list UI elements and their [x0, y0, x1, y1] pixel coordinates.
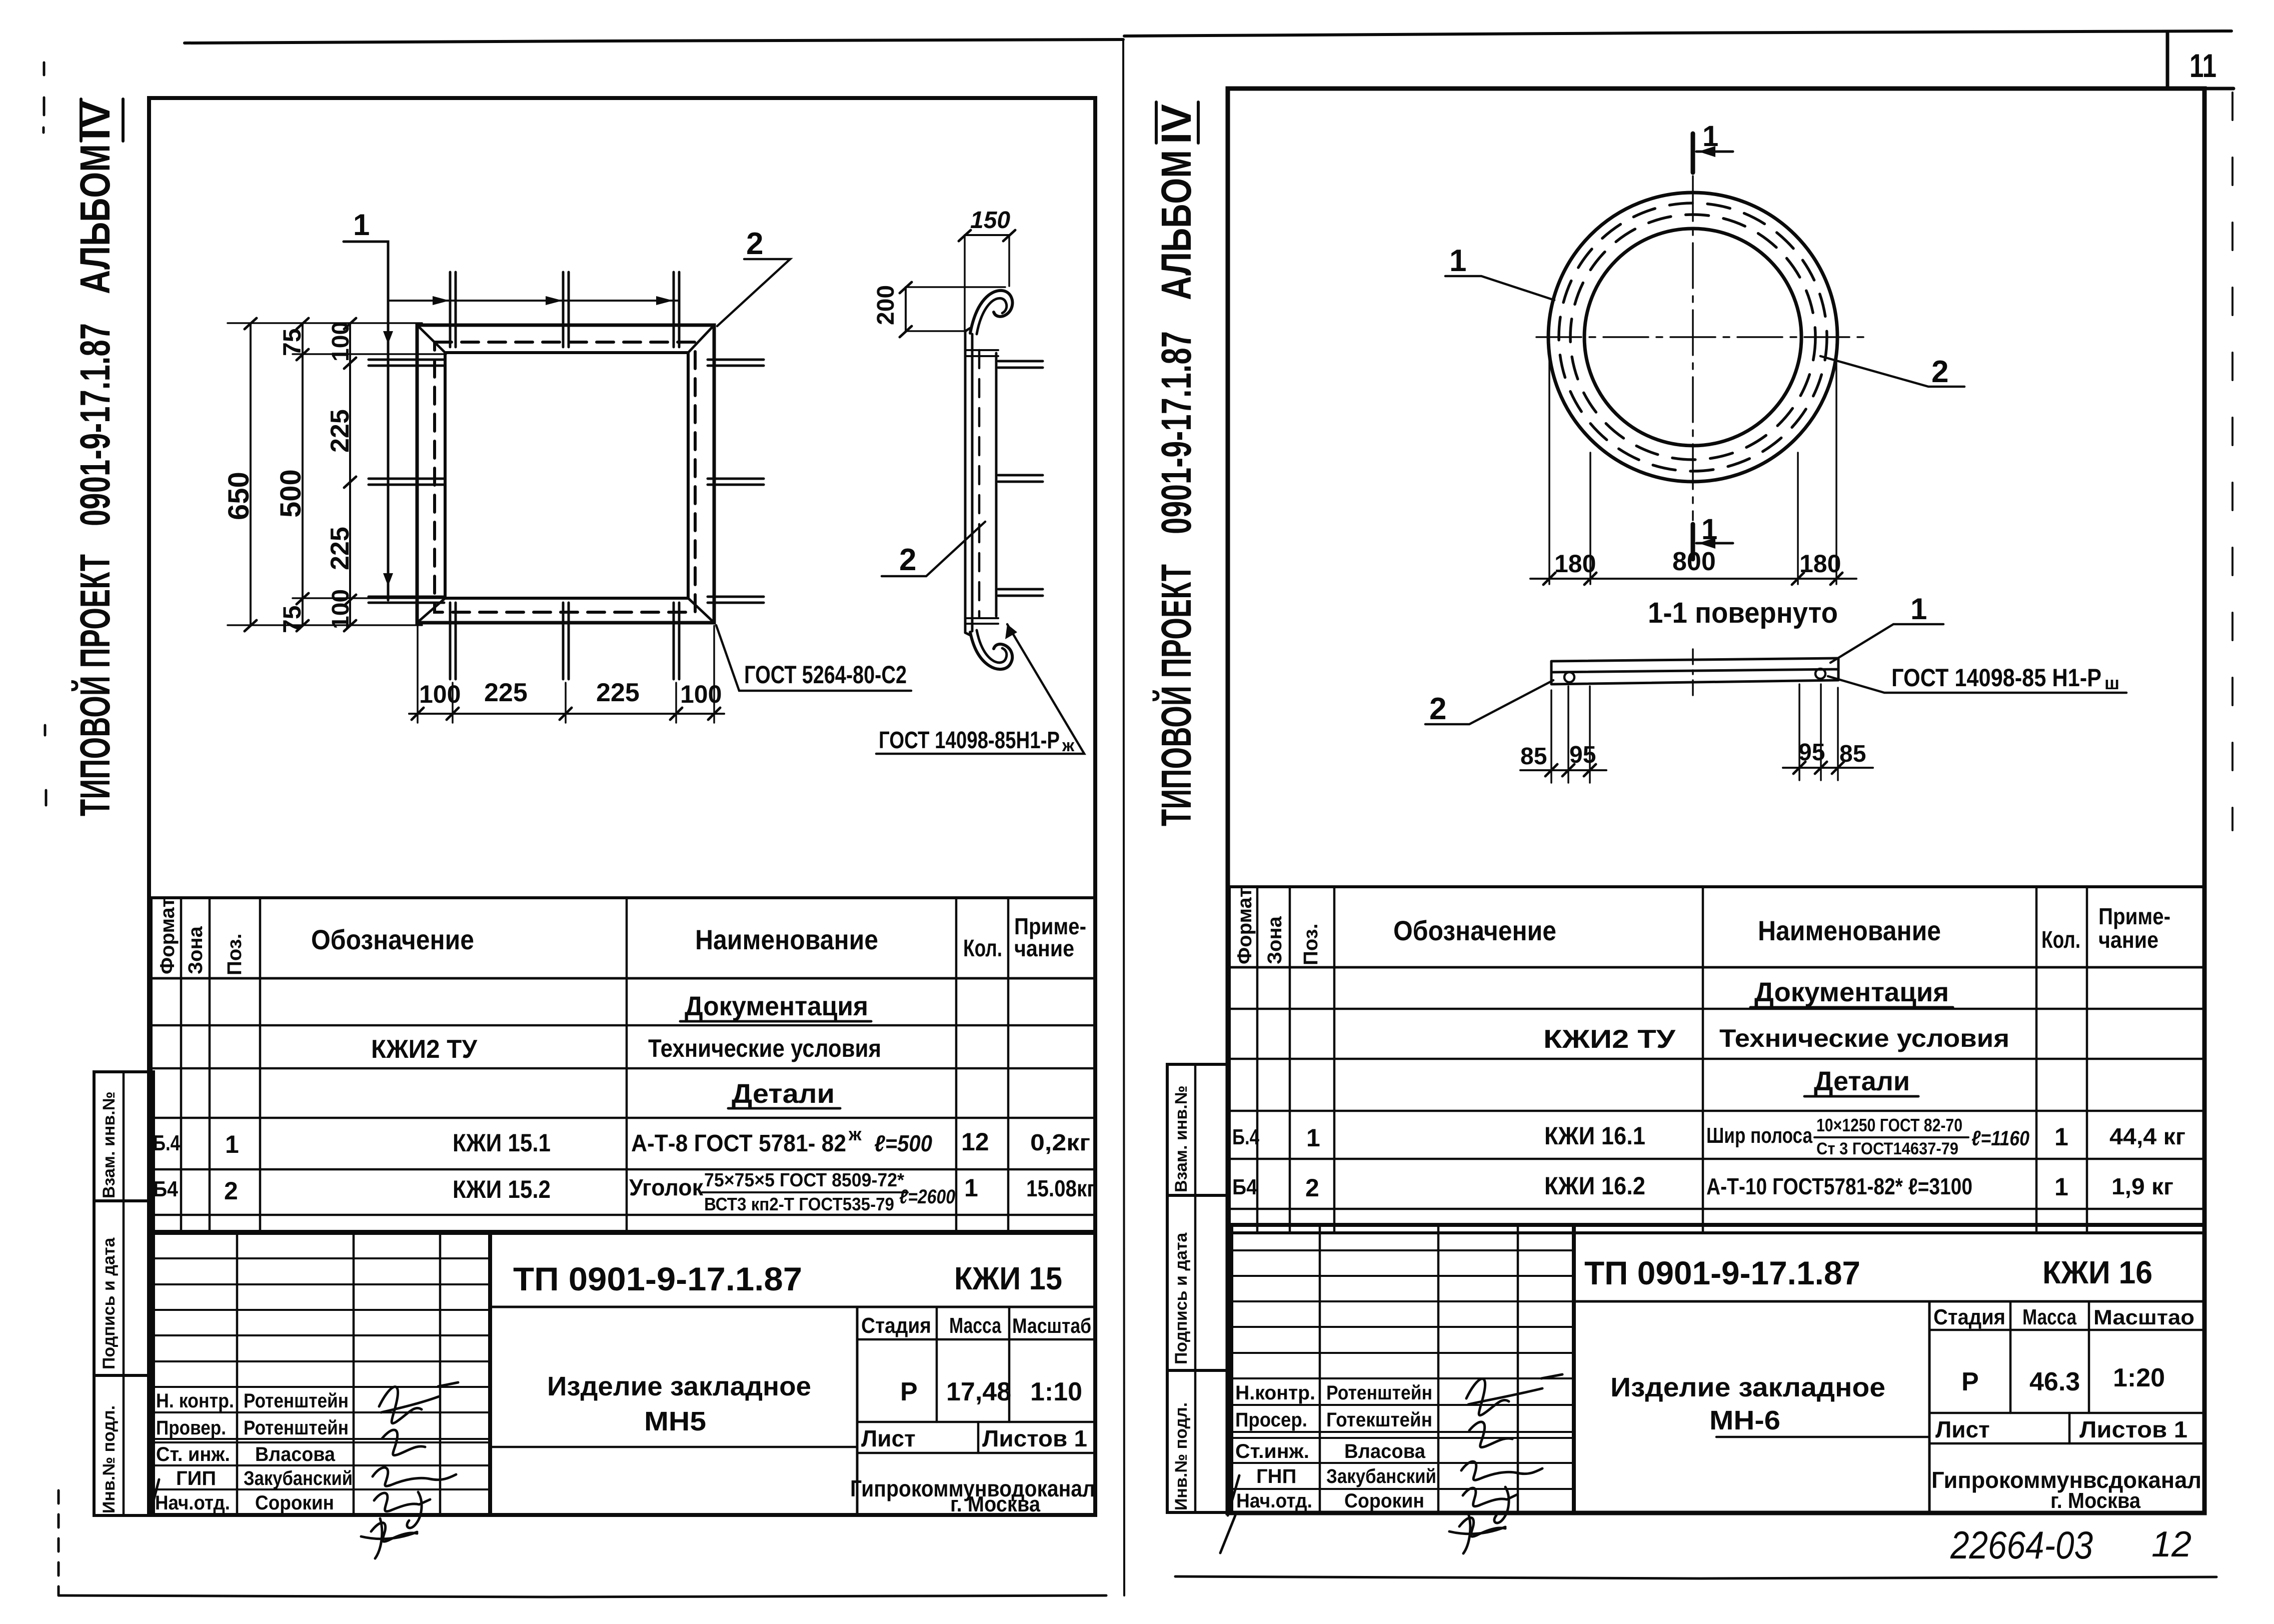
svg-text:ГНП: ГНП [1256, 1465, 1296, 1487]
svg-text:180: 180 [1799, 550, 1841, 578]
svg-text:ГИП: ГИП [176, 1467, 216, 1489]
svg-text:800: 800 [1672, 547, 1716, 576]
svg-text:1,9 кг: 1,9 кг [2111, 1173, 2173, 1199]
svg-text:А-Т-10 ГОСТ5781-82* ℓ=3100: А-Т-10 ГОСТ5781-82* ℓ=3100 [1706, 1173, 1972, 1199]
bottom dimension chain 100 225 225 100 [409, 713, 724, 715]
svg-text:Кол.: Кол. [963, 935, 1002, 962]
svg-text:Взам. инв.№: Взам. инв.№ [100, 1091, 119, 1198]
dim extension lines left side [228, 323, 446, 625]
right title block left-part column lines [1320, 1225, 1518, 1513]
svg-text:Сорокин: Сорокин [1344, 1490, 1424, 1512]
svg-text:Технические условия: Технические условия [1719, 1024, 2009, 1052]
svg-text:Б.4: Б.4 [1232, 1125, 1259, 1149]
svg-text:85: 85 [1839, 741, 1866, 767]
svg-text:Формат: Формат [157, 898, 179, 974]
plan view: inner square of angle frame [445, 353, 688, 598]
svg-text:Подпись и дата: Подпись и дата [100, 1237, 119, 1369]
svg-text:Провер.: Провер. [156, 1417, 226, 1439]
left sheet bottom scan line [59, 1595, 1106, 1597]
right sheet page frame [1228, 89, 2204, 1513]
svg-text:Лист: Лист [861, 1425, 916, 1451]
svg-text:225: 225 [596, 678, 640, 707]
section mark 1 top [1691, 134, 1695, 173]
side view: angle plate (item 2) [965, 331, 972, 633]
svg-text:10×1250 ГОСТ 82-70: 10×1250 ГОСТ 82-70 [1816, 1115, 1962, 1135]
svg-text:Масса: Масса [2022, 1305, 2076, 1329]
svg-text:1: 1 [353, 208, 370, 242]
side view: dim 200 [905, 287, 907, 331]
right title block left-part row lines [1231, 1250, 1574, 1489]
svg-text:1: 1 [2054, 1123, 2068, 1151]
svg-text:ТИПОВОЙ ПРОЕКТ: ТИПОВОЙ ПРОЕКТ [1153, 564, 1200, 826]
ring plan: inner circle [1584, 229, 1801, 446]
svg-text:2: 2 [224, 1177, 238, 1205]
svg-text:Ротенштейн: Ротенштейн [244, 1390, 349, 1412]
svg-text:МН-6: МН-6 [1709, 1405, 1780, 1435]
svg-text:КЖИ 15.2: КЖИ 15.2 [453, 1175, 551, 1203]
right sheet top edge line [1124, 31, 2231, 36]
svg-text:ж: ж [848, 1124, 862, 1144]
svg-text:ℓ=500: ℓ=500 [874, 1130, 932, 1156]
svg-text:Стадия: Стадия [1933, 1305, 2005, 1329]
svg-text:АЛЬБОМ: АЛЬБОМ [1153, 150, 1200, 300]
svg-text:Стадия: Стадия [861, 1313, 931, 1338]
svg-text:2: 2 [1429, 692, 1446, 726]
svg-text:ш: ш [2104, 673, 2119, 693]
svg-text:Сорокин: Сорокин [255, 1492, 334, 1514]
right spec table row lines [1229, 966, 2204, 969]
svg-text:ГОСТ 5264-80-С2: ГОСТ 5264-80-С2 [744, 661, 907, 689]
svg-text:Обозначение: Обозначение [1393, 915, 1556, 946]
svg-text:Закубанский: Закубанский [1326, 1465, 1436, 1487]
plan view: hidden dashed square (angle leg) [435, 342, 695, 612]
svg-text:12: 12 [961, 1128, 989, 1156]
ring plan: outer circle (item 1) [1548, 193, 1837, 482]
right side box Взам.инв.№ [1167, 1064, 1228, 1195]
svg-text:Инв.№ подл.: Инв.№ подл. [1172, 1402, 1191, 1510]
svg-text:225: 225 [326, 527, 355, 570]
left sheet top edge line [185, 40, 1123, 43]
left title block centre divider line [490, 1446, 857, 1448]
svg-text:Лист: Лист [1935, 1416, 1990, 1442]
svg-text:Просер.: Просер. [1235, 1409, 1307, 1431]
sheet divider line [1123, 40, 1124, 1595]
left side box Подпись и дата [94, 1201, 154, 1375]
svg-text:1: 1 [1702, 120, 1718, 153]
svg-text:100: 100 [419, 680, 461, 708]
section view strip (band edge-on) [1551, 658, 1838, 684]
left title block left-part column lines [237, 1233, 440, 1515]
svg-text:Масса: Масса [949, 1313, 1001, 1338]
svg-text:Шир полоса: Шир полоса [1706, 1123, 1812, 1148]
right specification table frame [1229, 887, 2204, 1233]
ring plan: hidden dashed circles (item 2 rebar ring) [1559, 203, 1827, 471]
svg-text:0901-9-17.1.87: 0901-9-17.1.87 [1153, 331, 1200, 534]
svg-text:Б4: Б4 [153, 1177, 178, 1201]
svg-text:ГОСТ 14098-85 Н1-Р: ГОСТ 14098-85 Н1-Р [1891, 664, 2101, 692]
svg-text:Власова: Власова [255, 1443, 336, 1465]
svg-text:225: 225 [484, 678, 528, 707]
svg-text:ж: ж [1062, 736, 1075, 755]
svg-text:Власова: Власова [1344, 1440, 1426, 1462]
side view: dim 150 [965, 234, 1009, 236]
right title block centre divider line [1716, 1436, 1929, 1438]
svg-text:КЖИ 16: КЖИ 16 [2042, 1254, 2152, 1290]
right spec table column lines [1257, 887, 2087, 1233]
svg-text:ℓ=2600: ℓ=2600 [899, 1186, 955, 1208]
svg-text:Р: Р [900, 1377, 918, 1406]
side view: spike bars [998, 361, 1043, 368]
svg-text:11: 11 [2189, 47, 2216, 84]
svg-text:1: 1 [1910, 592, 1927, 626]
svg-text:Технические условия: Технические условия [648, 1034, 881, 1062]
svg-text:Формат: Формат [1234, 888, 1256, 964]
left side box Взам.инв.№ [94, 1072, 154, 1201]
svg-text:Ст 3 ГОСТ14637-79: Ст 3 ГОСТ14637-79 [1816, 1139, 1958, 1158]
svg-text:ℓ=1160: ℓ=1160 [1971, 1126, 2029, 1150]
section dim line right 95 85 [1783, 767, 1873, 769]
svg-text:КЖИ2 ТУ: КЖИ2 ТУ [371, 1035, 478, 1064]
svg-text:Наименование: Наименование [1758, 915, 1941, 946]
svg-text:Р: Р [1961, 1367, 1979, 1396]
right title block frame [1231, 1225, 2204, 1513]
svg-text:75×75×5 ГОСТ 8509-72*: 75×75×5 ГОСТ 8509-72* [704, 1170, 904, 1191]
section dim line left 85 95 [1520, 769, 1606, 771]
svg-text:Н. контр.: Н. контр. [156, 1390, 234, 1412]
svg-text:ТИПОВОЙ ПРОЕКТ: ТИПОВОЙ ПРОЕКТ [72, 554, 119, 816]
svg-text:225: 225 [326, 409, 355, 453]
svg-text:2: 2 [899, 543, 916, 577]
svg-text:КЖИ 15.1: КЖИ 15.1 [453, 1129, 551, 1157]
svg-text:1:20: 1:20 [2113, 1363, 2165, 1392]
left specification table frame [151, 898, 1095, 1231]
svg-text:200: 200 [873, 285, 899, 325]
left side box Инв.№ подл. [94, 1375, 154, 1515]
svg-text:ТП 0901-9-17.1.87: ТП 0901-9-17.1.87 [513, 1260, 802, 1297]
dim 650 vertical line [250, 323, 252, 625]
dim 500 vertical line with 75 ends [302, 323, 304, 625]
svg-text:Зона: Зона [185, 926, 207, 974]
svg-text:чание: чание [2098, 927, 2158, 953]
section view weld circles [1564, 672, 1574, 682]
left spec table row lines [151, 977, 1095, 980]
right signatures handwriting [1466, 1374, 1562, 1415]
left bottom scan dashed edge [58, 1490, 60, 1594]
section dim extension lines left [1551, 686, 1590, 783]
svg-text:95: 95 [1569, 742, 1596, 768]
top dimension line with arrows [388, 300, 678, 302]
svg-text:Зона: Зона [1264, 916, 1286, 964]
svg-text:Детали: Детали [732, 1079, 835, 1109]
plan view: corner miter lines [417, 325, 714, 623]
svg-text:75: 75 [278, 605, 306, 633]
right sheet bottom scan line [1175, 1576, 2216, 1578]
svg-text:Листов 1: Листов 1 [2079, 1416, 2187, 1442]
svg-text:46.3: 46.3 [2029, 1367, 2080, 1396]
svg-text:Закубанский: Закубанский [244, 1467, 353, 1489]
svg-text:IV: IV [72, 100, 119, 140]
svg-text:1: 1 [1306, 1124, 1320, 1152]
ring plan: vertical centreline [1692, 176, 1694, 520]
dim chain 100/225/225/100 vertical line [349, 323, 351, 625]
svg-text:Инв.№ подл.: Инв.№ подл. [100, 1405, 119, 1513]
plan view: outer square of angle frame MH5 [417, 325, 714, 623]
svg-text:17,48: 17,48 [946, 1377, 1011, 1406]
svg-text:КЖИ 16.1: КЖИ 16.1 [1544, 1122, 1645, 1150]
svg-text:Б.4: Б.4 [153, 1131, 180, 1155]
left sheet page frame [149, 98, 1095, 1515]
svg-text:1: 1 [1701, 513, 1717, 546]
svg-text:1: 1 [964, 1174, 978, 1202]
svg-text:100: 100 [328, 322, 354, 362]
svg-text:Документация: Документация [1754, 977, 1949, 1007]
svg-text:Наименование: Наименование [695, 924, 878, 955]
rebar spikes left row [369, 360, 444, 366]
left spec table column lines [181, 898, 1008, 1231]
section mark 1 bottom [1691, 524, 1695, 559]
svg-text:чание: чание [1014, 935, 1074, 961]
svg-text:Ротенштейн: Ротенштейн [1326, 1382, 1432, 1404]
svg-text:95: 95 [1798, 739, 1825, 766]
svg-text:Детали: Детали [1814, 1066, 1910, 1096]
svg-text:IV: IV [1153, 104, 1200, 144]
right side box Подпись и дата [1167, 1195, 1228, 1370]
svg-text:650: 650 [223, 472, 255, 520]
svg-text:Обозначение: Обозначение [311, 924, 474, 955]
svg-text:Изделие закладное: Изделие закладное [1610, 1372, 1885, 1402]
svg-text:2: 2 [1305, 1174, 1319, 1202]
svg-text:1: 1 [1449, 244, 1466, 278]
svg-text:г. Москва: г. Москва [950, 1492, 1040, 1516]
svg-text:Кол.: Кол. [2041, 927, 2080, 953]
svg-text:КЖИ 15: КЖИ 15 [954, 1260, 1062, 1296]
svg-text:75: 75 [278, 328, 306, 356]
svg-text:1: 1 [2054, 1173, 2068, 1201]
svg-text:150: 150 [970, 207, 1010, 234]
svg-text:Н.контр.: Н.контр. [1235, 1382, 1315, 1404]
ring plan: horizontal centreline [1536, 336, 1871, 338]
svg-text:Нач.отд.: Нач.отд. [1236, 1490, 1312, 1512]
svg-text:1:10: 1:10 [1030, 1377, 1082, 1406]
side view: weld marks near hooks [965, 350, 998, 624]
svg-text:0,2кг: 0,2кг [1030, 1129, 1090, 1155]
svg-text:Изделие закладное: Изделие закладное [547, 1371, 811, 1401]
svg-text:ТП 0901-9-17.1.87: ТП 0901-9-17.1.87 [1584, 1254, 1860, 1291]
svg-text:Взам. инв.№: Взам. инв.№ [1172, 1085, 1191, 1192]
svg-text:Масштаб: Масштаб [1012, 1314, 1091, 1337]
side view: top hook of plate [970, 291, 1012, 333]
svg-text:500: 500 [275, 469, 307, 518]
left title block left-part row lines [151, 1258, 490, 1489]
svg-text:12: 12 [2151, 1524, 2191, 1564]
ring dimension line 180 800 180 [1530, 578, 1856, 580]
section line 1 with flag [344, 242, 388, 600]
svg-text:Поз.: Поз. [224, 933, 246, 975]
section dim extension lines right [1799, 684, 1838, 780]
left title block frame [151, 1233, 1095, 1515]
left title block Стадия/Масса/Масштаб box [856, 1307, 859, 1515]
right title block upper band line [1574, 1300, 2204, 1303]
svg-text:АЛЬБОМ: АЛЬБОМ [72, 144, 119, 294]
svg-text:Ротенштейн: Ротенштейн [244, 1417, 349, 1439]
right title block Стадия/Масса/Масштаб box [1928, 1301, 1931, 1513]
left title block upper band line [490, 1306, 1095, 1308]
svg-text:15.08кг: 15.08кг [1026, 1175, 1095, 1201]
svg-text:Поз.: Поз. [1300, 923, 1322, 965]
svg-text:А-Т-8 ГОСТ 5781- 82: А-Т-8 ГОСТ 5781- 82 [631, 1130, 846, 1157]
handwritten slash near ГНП row [1220, 1475, 1239, 1553]
svg-text:85: 85 [1520, 743, 1547, 770]
section view centreline [1692, 649, 1694, 696]
left scan edge dashes [44, 63, 46, 805]
ring dimension extension lines [1549, 344, 1836, 584]
svg-text:КЖИ 16.2: КЖИ 16.2 [1544, 1172, 1645, 1200]
svg-text:0901-9-17.1.87: 0901-9-17.1.87 [72, 323, 119, 526]
page number box line [2166, 32, 2169, 89]
rebar spikes bottom row [450, 603, 456, 679]
right scan edge dashed line [2231, 93, 2233, 830]
svg-text:Готекштейн: Готекштейн [1326, 1409, 1432, 1431]
svg-text:1-1 повернуто: 1-1 повернуто [1648, 597, 1838, 629]
left signatures handwriting [379, 1382, 458, 1423]
svg-text:г. Москва: г. Москва [2050, 1488, 2140, 1513]
rebar spikes right row [708, 360, 764, 366]
svg-text:Приме-: Приме- [2098, 903, 2170, 929]
svg-text:44,4 кг: 44,4 кг [2109, 1123, 2185, 1149]
svg-text:100: 100 [328, 589, 354, 629]
svg-text:Ст.инж.: Ст.инж. [1235, 1440, 1309, 1462]
svg-text:2: 2 [1931, 355, 1948, 389]
svg-text:ГОСТ 14098-85Н1-Р: ГОСТ 14098-85Н1-Р [879, 727, 1060, 754]
rebar spikes top row (item 1) [450, 272, 456, 347]
svg-text:КЖИ2 ТУ: КЖИ2 ТУ [1543, 1025, 1676, 1054]
svg-text:Подпись и дата: Подпись и дата [1172, 1232, 1191, 1364]
svg-text:Масштао: Масштао [2093, 1305, 2194, 1329]
svg-text:Листов 1: Листов 1 [982, 1425, 1087, 1451]
svg-text:Ст. инж.: Ст. инж. [156, 1443, 230, 1465]
svg-text:Уголок: Уголок [629, 1174, 704, 1200]
svg-text:Б4: Б4 [1232, 1175, 1257, 1199]
side view: bottom hook of plate [970, 632, 1012, 669]
handwritten slash near ГИП row [150, 1479, 159, 1514]
svg-text:2: 2 [746, 227, 763, 261]
svg-text:ВСТ3 кп2-Т ГОСТ535-79: ВСТ3 кп2-Т ГОСТ535-79 [704, 1194, 894, 1214]
right side box Инв.№ подл. [1167, 1370, 1228, 1512]
svg-text:1: 1 [225, 1130, 239, 1158]
svg-text:МН5: МН5 [644, 1406, 706, 1436]
svg-text:100: 100 [680, 680, 722, 708]
svg-text:Нач.отд.: Нач.отд. [155, 1492, 230, 1514]
svg-text:Документация: Документация [685, 991, 868, 1021]
svg-text:180: 180 [1554, 550, 1596, 578]
svg-text:22664-03: 22664-03 [1950, 1523, 2093, 1567]
